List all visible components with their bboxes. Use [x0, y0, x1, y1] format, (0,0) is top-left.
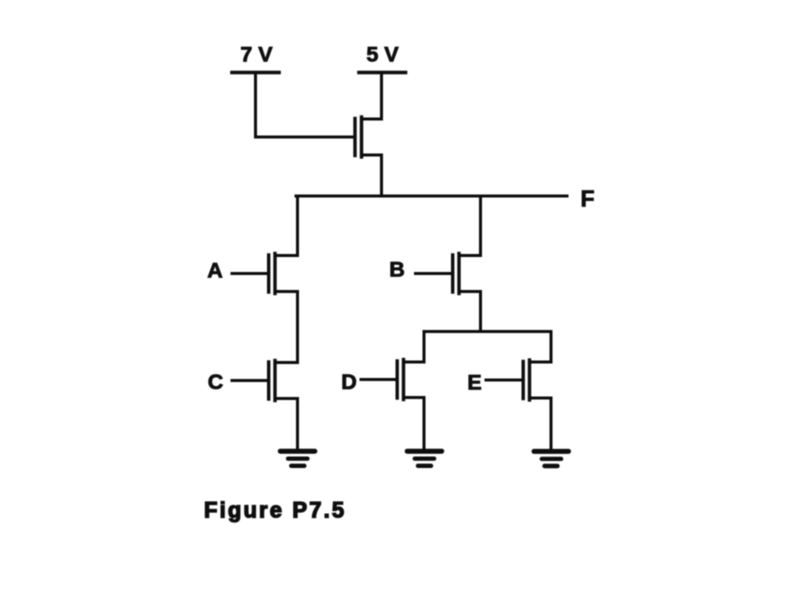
transistor D	[397, 360, 424, 400]
ground (E branch)	[534, 451, 569, 466]
svg-text:C: C	[208, 370, 224, 394]
ground (D branch)	[407, 451, 442, 466]
wire gate lead D	[361, 378, 396, 381]
wire E source to ground	[550, 398, 553, 449]
wire M1 source to bus	[380, 155, 383, 196]
wire C source to ground	[296, 399, 299, 450]
wire gate of M1	[256, 136, 354, 139]
transistor B	[453, 254, 481, 294]
power rail 5V bar	[359, 71, 406, 75]
wire bus to B drain	[479, 196, 482, 255]
wire gate lead B	[416, 272, 452, 275]
svg-text:B: B	[389, 258, 405, 282]
svg-text:E: E	[467, 371, 481, 395]
transistor C	[269, 361, 298, 401]
wire B source to lower bus	[479, 292, 482, 332]
wire lower bus to D drain	[423, 332, 426, 363]
svg-text:F: F	[580, 186, 594, 212]
wire gate lead A	[232, 272, 267, 275]
transistor M1 (load, gate to 7V)	[355, 117, 382, 157]
svg-text:D: D	[341, 370, 357, 394]
ground (C branch)	[280, 451, 315, 466]
svg-text:A: A	[207, 259, 223, 283]
wire gate lead E	[486, 379, 522, 382]
svg-text:Figure P7.5: Figure P7.5	[204, 498, 346, 523]
wire 5V stem	[380, 74, 383, 119]
wire 7V stem	[254, 74, 257, 137]
power rail 7V bar	[232, 71, 279, 75]
transistor E	[523, 360, 551, 400]
wire lower bus	[424, 330, 551, 333]
svg-text:5 V: 5 V	[366, 43, 399, 67]
svg-text:7 V: 7 V	[240, 43, 273, 67]
wire lower bus to E drain	[550, 332, 553, 362]
transistor A	[269, 254, 298, 294]
wire A source to C drain	[296, 292, 299, 363]
wire bus to A drain	[296, 196, 299, 256]
wire output bus	[296, 195, 567, 198]
wire gate lead C	[232, 379, 267, 382]
wire D source to ground	[423, 398, 426, 450]
